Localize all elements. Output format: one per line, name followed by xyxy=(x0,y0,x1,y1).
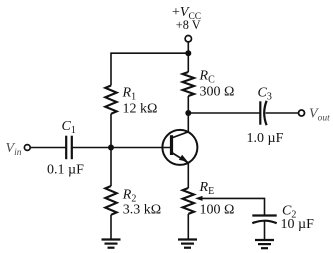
wire RC bottom stub xyxy=(187,96,189,113)
junction base node xyxy=(108,145,114,151)
svg-text:+8 V: +8 V xyxy=(176,18,201,32)
resistor R2 xyxy=(105,186,116,215)
arrow tap on RE xyxy=(195,196,203,201)
wire C2 to ground xyxy=(264,221,266,240)
wire collector node to C3 xyxy=(188,112,260,114)
wire top rail xyxy=(111,52,188,54)
junction top rail xyxy=(185,50,191,56)
wire VCC stub xyxy=(187,42,189,53)
resistor RE xyxy=(183,188,194,214)
wire Vin to C1 xyxy=(30,147,66,149)
resistor R1 xyxy=(105,86,116,114)
wire C1 to base xyxy=(72,147,172,149)
wire C3 to Vout xyxy=(266,112,299,114)
terminal Vin xyxy=(24,145,30,151)
svg-text:300 Ω: 300 Ω xyxy=(200,85,235,100)
resistor RC xyxy=(183,72,194,96)
wire left rail middle xyxy=(110,114,112,186)
junction collector node xyxy=(185,110,191,116)
svg-text:3.3 kΩ: 3.3 kΩ xyxy=(123,203,161,218)
wire emitter xyxy=(187,163,189,188)
wire left rail upper xyxy=(110,52,112,85)
svg-text:12 kΩ: 12 kΩ xyxy=(123,102,158,117)
capacitor C1 xyxy=(66,136,72,160)
wire RC top stub xyxy=(187,53,189,72)
wire tap to C2 xyxy=(202,198,265,215)
capacitor C3 xyxy=(260,101,266,125)
svg-text:100 Ω: 100 Ω xyxy=(200,203,235,218)
ground under R2 xyxy=(102,240,121,248)
wire RE to ground xyxy=(187,214,189,240)
wire collector xyxy=(187,113,189,132)
wire R2 to ground xyxy=(110,215,112,240)
transistor Q1 (NPN) xyxy=(162,130,197,165)
svg-text:1.0 µF: 1.0 µF xyxy=(247,131,284,146)
capacitor C2 xyxy=(252,216,276,224)
ground under RE xyxy=(178,240,197,248)
svg-text:10 µF: 10 µF xyxy=(281,217,315,232)
svg-text:0.1 µF: 0.1 µF xyxy=(47,163,84,178)
ground under C2 xyxy=(255,240,274,248)
terminal VCC xyxy=(185,36,191,42)
terminal Vout xyxy=(299,110,305,116)
